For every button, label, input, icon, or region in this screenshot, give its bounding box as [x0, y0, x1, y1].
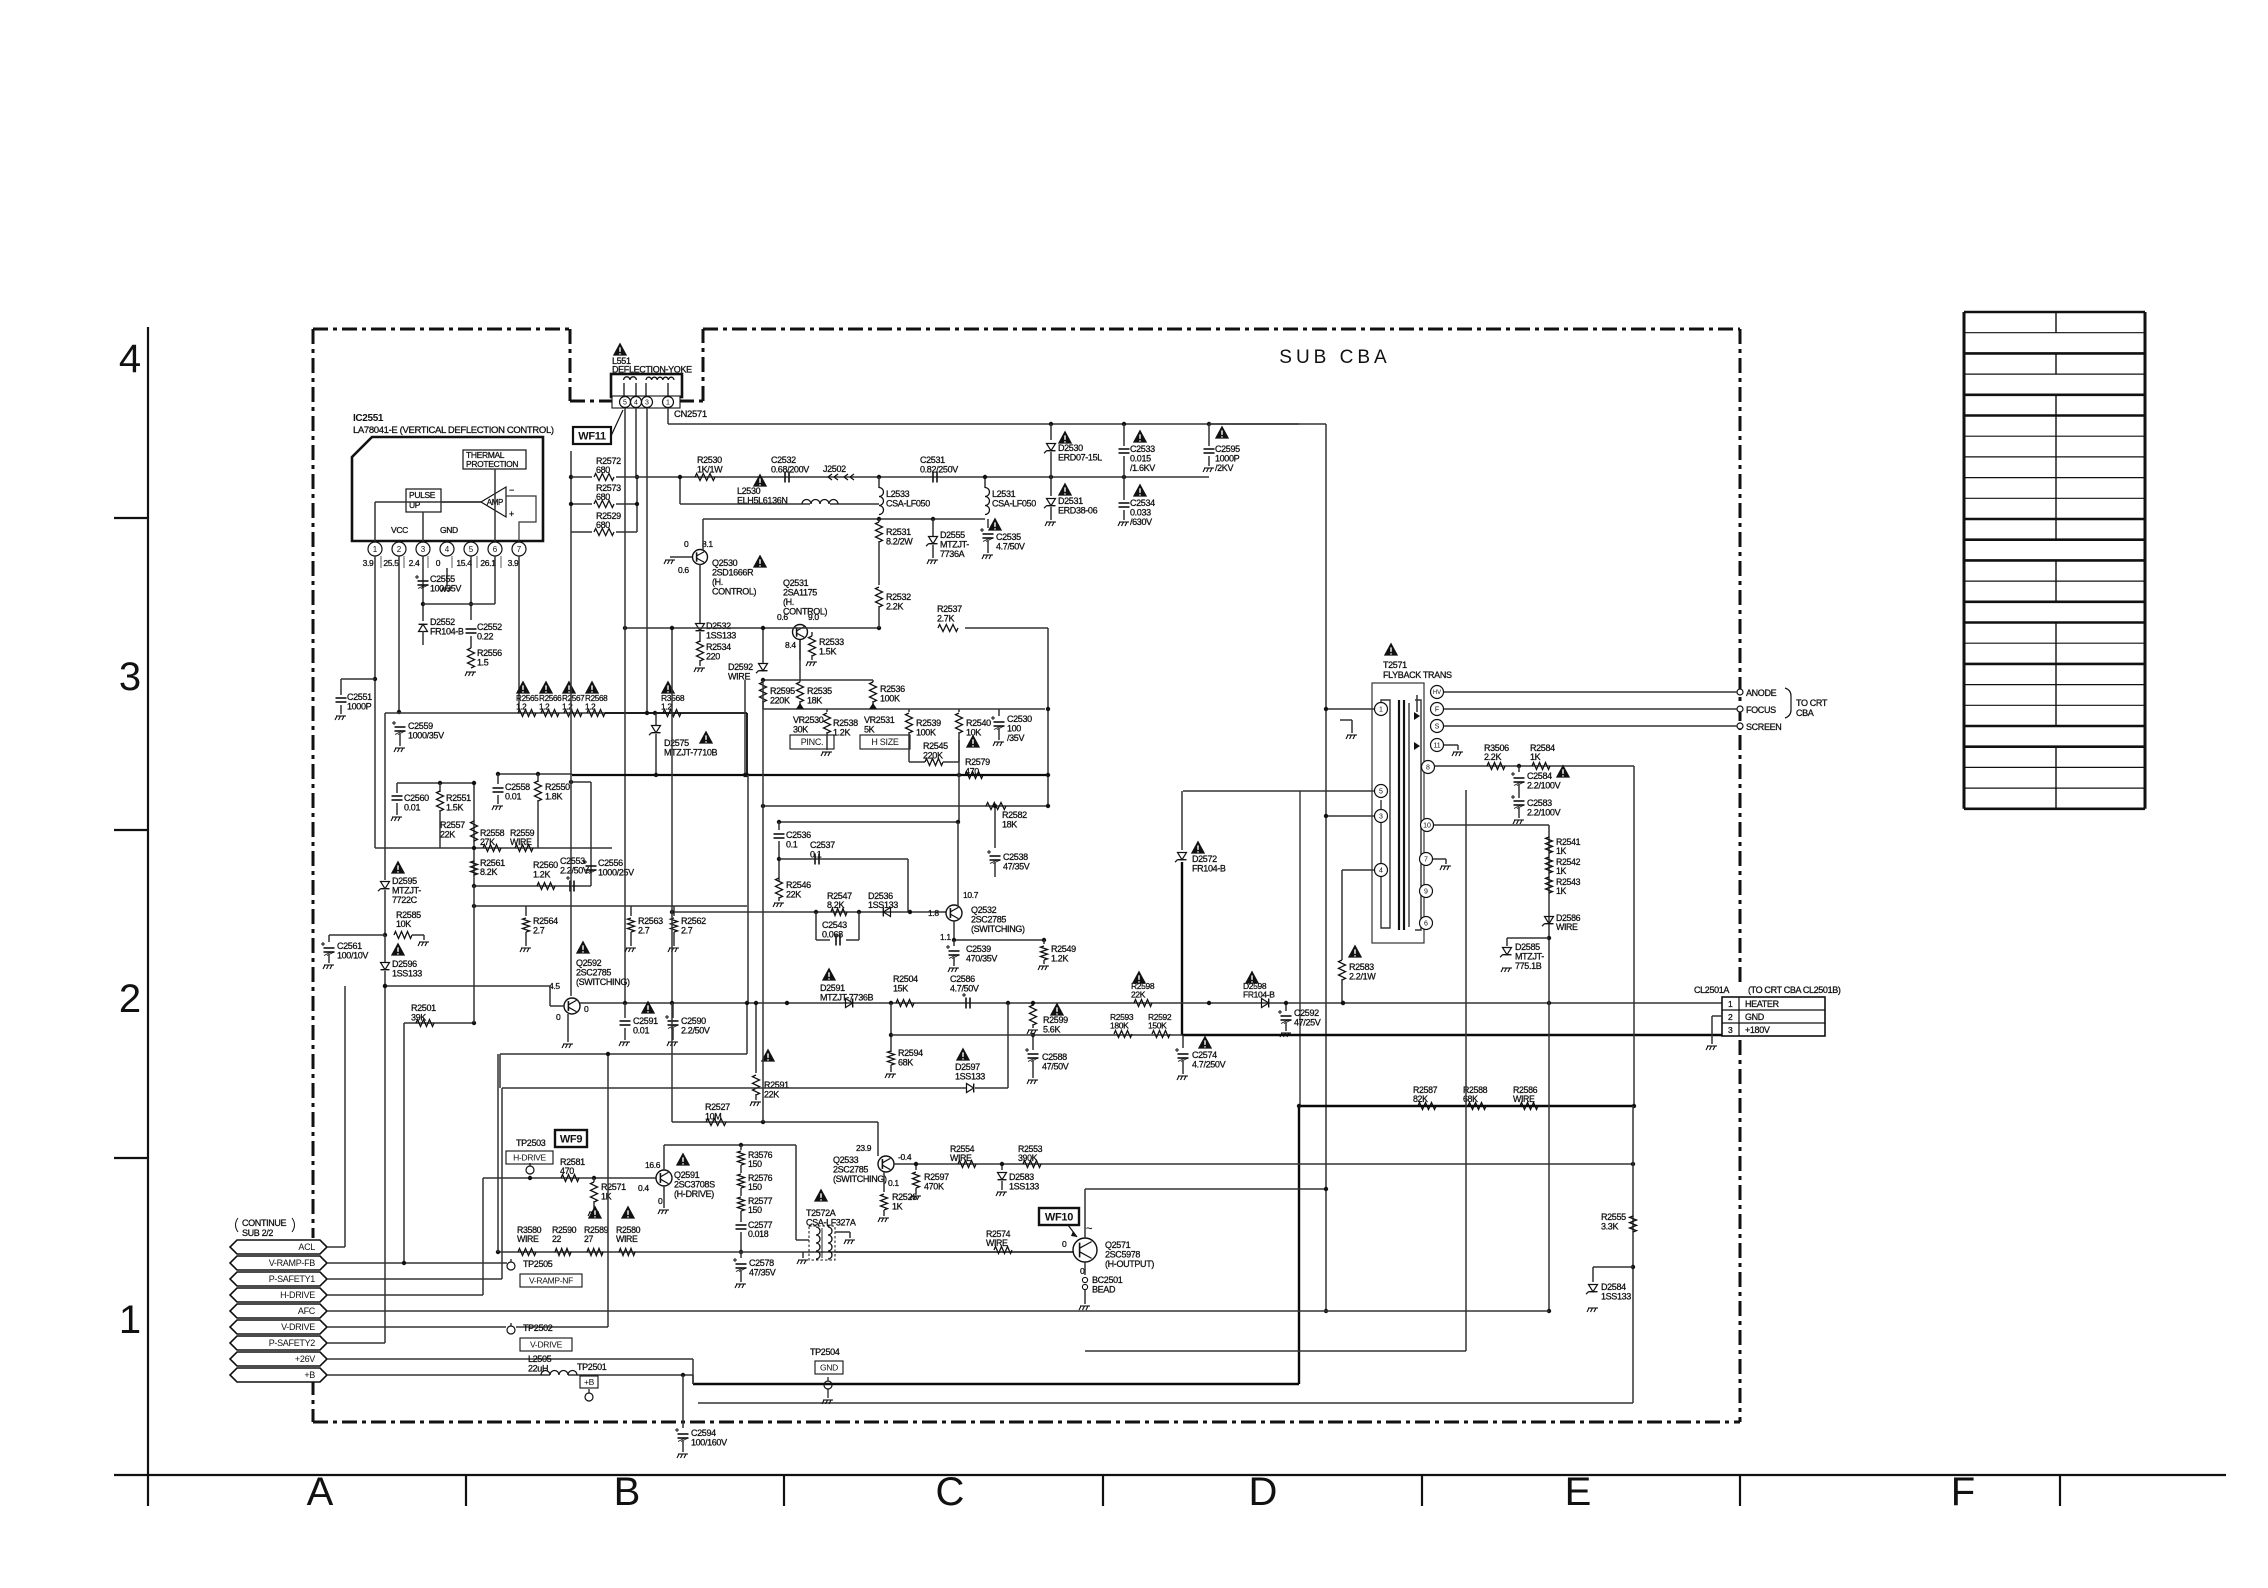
wire pin6 down — [494, 556, 496, 604]
WF10 arrow — [1068, 1225, 1077, 1237]
svg-text:CBA: CBA — [1796, 708, 1814, 718]
svg-text:100: 100 — [1007, 724, 1021, 734]
resistor R2576 — [740, 1165, 742, 1173]
yoke coil right — [646, 377, 674, 380]
border bottom segment — [313, 1421, 1740, 1424]
junction R2501 — [472, 1021, 476, 1025]
svg-text:H-DRIVE: H-DRIVE — [513, 1153, 546, 1163]
svg-text:15K: 15K — [893, 984, 908, 994]
junction x474 y783 — [472, 781, 476, 785]
resistor R2554 — [958, 1161, 976, 1168]
page frame bottom line — [114, 1474, 2226, 1476]
svg-text:22K: 22K — [764, 1090, 779, 1100]
svg-text:Q2533: Q2533 — [833, 1155, 859, 1165]
wire x1300 vertical — [1299, 791, 1301, 1106]
svg-text:TP2503: TP2503 — [516, 1138, 546, 1148]
inductor L2530 — [802, 500, 838, 505]
wire y1403 — [698, 1402, 1633, 1404]
svg-text:1000P: 1000P — [1215, 454, 1240, 464]
resistor R2586 — [1520, 1103, 1538, 1110]
resistor R2561 — [471, 861, 478, 875]
svg-text:4: 4 — [445, 545, 450, 554]
junction R2585 — [383, 933, 387, 937]
svg-text:CL2501A: CL2501A — [1694, 985, 1729, 995]
wire drive row y1252 — [498, 1251, 1074, 1253]
border right lower segment — [1739, 1040, 1742, 1422]
svg-text:1K: 1K — [1556, 886, 1567, 896]
H SIZE box — [860, 735, 910, 749]
wire x878 down — [877, 1122, 879, 1156]
svg-text:TP2501: TP2501 — [577, 1362, 607, 1372]
svg-text:(SWITCHING): (SWITCHING) — [971, 924, 1025, 934]
wire C2559 down — [399, 734, 401, 746]
svg-text:FR104-B: FR104-B — [1243, 990, 1275, 1000]
svg-text:25.5: 25.5 — [383, 558, 399, 568]
capacitor C2586p — [965, 998, 967, 1009]
svg-text:P-SAFETY2: P-SAFETY2 — [269, 1338, 316, 1348]
ground C2594 — [677, 1454, 688, 1458]
frame tick left y518 — [114, 517, 148, 519]
wire pin1 down2 — [374, 679, 376, 848]
resistor R2545 — [909, 761, 925, 763]
resistor R2599 — [1032, 1003, 1034, 1006]
svg-text:470K: 470K — [924, 1182, 944, 1192]
diode D2591 — [846, 999, 853, 1008]
svg-text:LA78041-E (VERTICAL DEFLECTION: LA78041-E (VERTICAL DEFLECTION CONTROL) — [353, 425, 554, 436]
junction y912 816 — [814, 910, 818, 914]
junction x745 y775 — [743, 773, 747, 777]
svg-text:Q2530: Q2530 — [712, 558, 738, 568]
svg-text:27: 27 — [584, 1234, 594, 1244]
svg-text:C2543: C2543 — [822, 920, 847, 930]
border left upper segment — [312, 329, 315, 1238]
resistor R2562 — [673, 906, 675, 916]
junction y775 — [957, 773, 961, 777]
resistor R2588 — [1468, 1103, 1486, 1110]
svg-text:R2531: R2531 — [886, 527, 911, 537]
ground D2584 — [1587, 1308, 1598, 1312]
ground C2595 — [1203, 468, 1214, 472]
junction y424 1124 — [1122, 422, 1126, 426]
wire y1310 loop — [1548, 1003, 1550, 1311]
ground T2572A right — [844, 1240, 855, 1244]
T2571 pin 3 — [1375, 810, 1388, 823]
junction pin2 — [397, 710, 401, 714]
ground D2555 — [927, 560, 938, 564]
svg-text:D2555: D2555 — [940, 530, 965, 540]
VR2530 arrow — [796, 703, 804, 709]
wire pin2 down — [398, 556, 400, 712]
warn C2535 — [988, 518, 1002, 531]
svg-text:2.7: 2.7 — [681, 926, 693, 936]
resistor R2540 — [958, 709, 960, 712]
svg-text:100K: 100K — [880, 694, 900, 704]
svg-text:(H-OUTPUT): (H-OUTPUT) — [1105, 1259, 1154, 1269]
svg-text:0.033: 0.033 — [1130, 508, 1151, 518]
junction pin3 — [1324, 814, 1328, 818]
ground C2535 — [982, 555, 993, 559]
junction y1003 672 — [670, 1001, 674, 1005]
ground D2531 — [1045, 522, 1056, 526]
wire pin5 down — [470, 556, 472, 620]
capacitor C2536 — [778, 822, 780, 830]
svg-text:1SS133: 1SS133 — [1601, 1292, 1631, 1302]
ground C2560 — [391, 817, 402, 821]
svg-text:TO CRT: TO CRT — [1796, 698, 1828, 708]
junction y1003 1008 — [1006, 1001, 1010, 1005]
svg-text:Q2531: Q2531 — [783, 578, 809, 588]
svg-text:(H.: (H. — [712, 577, 723, 587]
svg-text:7722C: 7722C — [392, 895, 418, 905]
svg-text:R2555: R2555 — [1601, 1212, 1626, 1222]
svg-text:(SWITCHING): (SWITCHING) — [576, 977, 630, 987]
resistor R2555 — [1630, 1216, 1637, 1232]
border yoke notch left vertical — [569, 329, 572, 401]
wire x747 thick — [746, 713, 748, 775]
wire y806 — [763, 805, 1048, 807]
capacitor C2578 — [740, 1252, 742, 1258]
pin separators — [380, 556, 382, 568]
resistor R2564 — [525, 906, 527, 916]
svg-text:(TO CRT CBA CL2501B): (TO CRT CBA CL2501B) — [1748, 985, 1841, 995]
svg-text:680: 680 — [596, 520, 610, 530]
junction y848 — [472, 846, 476, 850]
junction y822 779 — [777, 820, 781, 824]
svg-text:4.7/50V: 4.7/50V — [996, 542, 1025, 552]
wire L2531 top — [984, 477, 986, 488]
resistor R2591 — [755, 1003, 757, 1073]
svg-text:1K: 1K — [1530, 752, 1541, 762]
wire Q2532 emitter — [953, 921, 955, 940]
svg-text:1.5K: 1.5K — [819, 647, 836, 657]
svg-text:WIRE: WIRE — [616, 1234, 638, 1244]
svg-text:2: 2 — [119, 977, 141, 1021]
resistor R2590 — [555, 1249, 571, 1256]
svg-text:Q2591: Q2591 — [674, 1170, 700, 1180]
svg-text:-0.4: -0.4 — [898, 1152, 912, 1162]
resistor R2531 — [878, 519, 880, 522]
svg-text:C2551: C2551 — [347, 692, 372, 702]
junction y424 1209 — [1207, 422, 1211, 426]
junction y986 — [383, 984, 387, 988]
wire Q2591 emitter — [663, 1186, 665, 1208]
warn D2596 — [391, 943, 405, 956]
svg-text:2.2/50V: 2.2/50V — [560, 866, 589, 876]
wire x959 mid — [958, 740, 960, 822]
svg-text:150: 150 — [748, 1205, 762, 1215]
svg-text:2SC5978: 2SC5978 — [1105, 1250, 1140, 1260]
node H-DRIVE hexagon — [230, 1288, 327, 1302]
svg-text:0.1: 0.1 — [810, 850, 822, 860]
wire pin4 left — [1342, 869, 1374, 871]
svg-text:2: 2 — [397, 545, 402, 554]
svg-text:C2539: C2539 — [966, 944, 991, 954]
ground R2564 — [520, 948, 531, 952]
svg-text:WF9: WF9 — [560, 1133, 583, 1145]
warn R2591 — [761, 1049, 775, 1062]
VR2531 arrow — [869, 703, 877, 709]
svg-text:1K: 1K — [1556, 866, 1567, 876]
wire R2594 col — [890, 1003, 892, 1052]
ground BC2501 — [1079, 1306, 1090, 1310]
junction R2572 l — [569, 475, 573, 479]
junction R2572 r — [635, 475, 639, 479]
warn R2566 — [539, 681, 553, 694]
svg-text:FOCUS: FOCUS — [1746, 705, 1776, 715]
wire pin7 down — [518, 556, 520, 713]
warn R2568 — [585, 681, 599, 694]
ground R2549 — [1038, 966, 1049, 970]
wire D2585 branch — [1507, 937, 1549, 939]
wire bead down — [1084, 1290, 1086, 1304]
ground C2588 — [1027, 1080, 1038, 1084]
svg-text:C2536: C2536 — [786, 830, 811, 840]
wire Q2531 emitter down — [799, 640, 801, 660]
node +26V hexagon — [230, 1352, 327, 1366]
svg-text:30K: 30K — [793, 725, 808, 735]
wire P-SAFETY2 — [327, 1342, 385, 1344]
transistor Q2571 — [1073, 1238, 1097, 1262]
ground R2534 — [694, 668, 705, 672]
svg-text:2SC2785: 2SC2785 — [971, 915, 1006, 925]
junction y1122 763 — [761, 1120, 765, 1124]
T2571 outline — [1372, 683, 1424, 943]
wire y886 — [474, 885, 591, 887]
node V-RAMP-FB hexagon — [230, 1256, 327, 1270]
svg-text:C2532: C2532 — [771, 455, 796, 465]
junction R2597 — [914, 1162, 918, 1166]
svg-text:0.4: 0.4 — [638, 1183, 649, 1193]
svg-text:D2595: D2595 — [392, 876, 417, 886]
wire Q2571 emitter — [1084, 1262, 1086, 1275]
svg-text:2.2K: 2.2K — [1484, 752, 1501, 762]
junction R2591 — [754, 1001, 758, 1005]
zener D2575 — [655, 713, 657, 726]
resistor R2533 — [811, 632, 813, 636]
svg-text:8.2/2W: 8.2/2W — [886, 537, 913, 547]
wire R2583 col — [1341, 870, 1343, 960]
wire C2561 branch — [329, 934, 385, 936]
resistor R2538 — [826, 709, 828, 712]
svg-text:C2558: C2558 — [505, 782, 530, 792]
svg-text:R2545: R2545 — [923, 741, 948, 751]
warn L551 — [613, 343, 627, 356]
svg-text:R2579: R2579 — [965, 757, 990, 767]
diode D2597h — [967, 1084, 974, 1093]
wire P-SAFETY1 — [327, 1278, 502, 1280]
ground R2556 — [465, 672, 476, 676]
svg-text:0: 0 — [1062, 1239, 1067, 1249]
junction pin1 x1326 — [1324, 707, 1328, 711]
svg-text:C2592: C2592 — [1294, 1008, 1319, 1018]
ground C2530 — [993, 742, 1004, 746]
wire D2552 to C2552 — [422, 631, 424, 645]
capacitor C2577 — [740, 1211, 742, 1222]
wire Q2530 emitter — [699, 564, 701, 623]
resistor R2592 — [1152, 1031, 1170, 1038]
svg-text:C2574: C2574 — [1192, 1050, 1217, 1060]
warn C2591 — [641, 1001, 655, 1014]
wire x1634 — [1633, 766, 1635, 1106]
wire y775 heavy — [572, 774, 1048, 776]
junction x1299 y1106 — [1297, 1104, 1301, 1108]
frame tick bottom x2060 — [2059, 1475, 2061, 1506]
svg-text:0: 0 — [658, 1196, 663, 1206]
capacitor C2558 — [497, 774, 499, 784]
svg-text:(H.: (H. — [783, 597, 794, 607]
frame tick bottom x1103 — [1102, 1475, 1104, 1506]
testpoint TP2504 — [824, 1381, 832, 1389]
svg-text:V-RAMP-NF: V-RAMP-NF — [529, 1276, 573, 1286]
warn D2597 — [956, 1048, 970, 1061]
IC2551 pin 1 — [368, 542, 382, 556]
border right upper segment — [1739, 329, 1742, 985]
resistor R2565 — [518, 710, 536, 717]
wire pin3 down — [422, 556, 424, 621]
T2571 pin F — [1431, 703, 1444, 716]
svg-text:R2549: R2549 — [1051, 944, 1076, 954]
wire R2527 col — [671, 1003, 673, 1122]
wire resistor row y713 — [385, 712, 667, 714]
svg-text:T2572A: T2572A — [806, 1208, 836, 1218]
ground pin7 — [1440, 866, 1451, 870]
svg-text:H-DRIVE: H-DRIVE — [280, 1290, 315, 1300]
svg-text:4.7/250V: 4.7/250V — [1192, 1060, 1226, 1070]
svg-text:R2564: R2564 — [533, 916, 558, 926]
svg-text:220K: 220K — [770, 696, 790, 706]
junction L2530 — [678, 475, 682, 479]
ground Q2592 — [562, 1044, 573, 1048]
wire pin11 gnd — [1444, 744, 1458, 746]
svg-text:V-DRIVE: V-DRIVE — [530, 1340, 563, 1350]
svg-text:CONTINUE: CONTINUE — [242, 1218, 287, 1228]
wire x763 long — [762, 806, 764, 1122]
svg-text:R2550: R2550 — [545, 782, 570, 792]
svg-text:SUB 2/2: SUB 2/2 — [242, 1228, 273, 1238]
diode D2586 — [1545, 917, 1554, 924]
CN2571 pin 5 — [620, 397, 631, 408]
resistor R2587 — [1418, 1103, 1436, 1110]
svg-text:D2584: D2584 — [1601, 1282, 1626, 1292]
svg-text:0.01: 0.01 — [404, 803, 420, 813]
wire row to D2575 — [605, 712, 747, 714]
svg-text:1000P: 1000P — [347, 702, 372, 712]
transformer T2572A — [809, 1226, 835, 1260]
wire FOCUS — [1444, 708, 1737, 710]
svg-text:10K: 10K — [396, 919, 411, 929]
svg-text:10.7: 10.7 — [963, 890, 979, 900]
svg-text:MTZJT-: MTZJT- — [1515, 952, 1544, 962]
junction C2538 top — [993, 804, 997, 808]
svg-text:0: 0 — [584, 1004, 589, 1014]
junction y713 x647 — [645, 711, 649, 715]
T2571 inner gnd — [1351, 720, 1353, 733]
warn R2599 — [1050, 1003, 1064, 1016]
wire y604 — [423, 603, 495, 605]
capacitor C2556 — [586, 865, 597, 867]
wire amp out left — [375, 501, 481, 503]
capacitor C2592 — [1285, 1003, 1287, 1011]
capacitor C2552 — [466, 628, 477, 630]
resistor R2534 — [699, 632, 701, 642]
wire pulseup down — [422, 512, 424, 541]
wire +B — [327, 1374, 550, 1376]
junction y1003 625 — [623, 1001, 627, 1005]
svg-text:WF11: WF11 — [578, 430, 606, 442]
svg-text:D2575: D2575 — [664, 738, 689, 748]
wire y940 — [954, 939, 1044, 941]
pin4 ground wire — [446, 568, 448, 586]
resistor R2598 — [1134, 1000, 1152, 1007]
ground R2594 — [885, 1074, 896, 1078]
H-DRIVE box — [506, 1151, 553, 1164]
svg-text:FLYBACK TRANS: FLYBACK TRANS — [1383, 670, 1452, 680]
svg-text:11: 11 — [1433, 743, 1440, 750]
svg-text:E: E — [1565, 1470, 1592, 1514]
svg-text:220: 220 — [706, 652, 720, 662]
THERMAL PROTECTION box — [463, 450, 526, 469]
svg-text:10: 10 — [1423, 823, 1431, 830]
wire drive row right — [835, 1251, 1074, 1253]
warn Q2530 — [753, 555, 767, 568]
wire C2556 col — [590, 782, 592, 886]
svg-text:3.3K: 3.3K — [1601, 1222, 1618, 1232]
junction y886 x474 — [472, 884, 476, 888]
warn D2530 — [1058, 431, 1072, 444]
svg-text:R2532: R2532 — [886, 592, 911, 602]
wire y906 — [474, 905, 747, 907]
svg-text:1.2K: 1.2K — [1051, 954, 1068, 964]
svg-text:C2538: C2538 — [1003, 852, 1028, 862]
resistor R3580 — [518, 1249, 536, 1256]
transistor Q2531 — [793, 625, 808, 640]
IC2551 pin 6 — [488, 542, 502, 556]
resistor R2539 — [908, 709, 910, 712]
svg-text:1K: 1K — [1556, 846, 1567, 856]
warn Q2592 — [576, 941, 590, 954]
wire D2572 heavy — [1181, 862, 1183, 1035]
svg-text:+180V: +180V — [1745, 1025, 1770, 1035]
svg-text:CSA-LF050: CSA-LF050 — [886, 499, 930, 509]
resistor R2547 — [831, 909, 847, 916]
frame tick bottom x1422 — [1421, 1475, 1423, 1506]
svg-text:1.8K: 1.8K — [545, 792, 562, 802]
node P-SAFETY1 hexagon — [230, 1272, 327, 1286]
svg-text:C2561: C2561 — [337, 941, 362, 951]
svg-text:3: 3 — [645, 400, 649, 407]
transistor Q2533 — [878, 1156, 894, 1172]
wire CN pin4 down — [635, 408, 637, 477]
ground T2571 inner — [1346, 735, 1357, 739]
border top-right segment — [703, 328, 1740, 331]
svg-text:9: 9 — [1424, 889, 1428, 896]
svg-text:L2531: L2531 — [992, 489, 1016, 499]
svg-text:150: 150 — [748, 1182, 762, 1192]
wire R2501 row — [404, 1022, 474, 1024]
node AFC hexagon — [230, 1304, 327, 1318]
svg-text:A: A — [307, 1470, 334, 1514]
svg-text:R2536: R2536 — [880, 684, 905, 694]
svg-text:R2582: R2582 — [1002, 810, 1027, 820]
wire x474 main — [473, 783, 475, 885]
wire H-DRIVE y1178 — [483, 1177, 656, 1179]
junction x741 — [739, 1143, 743, 1147]
svg-text:1: 1 — [119, 1298, 141, 1342]
resistor R2504 — [896, 1000, 914, 1007]
CN2571 pin 3 — [642, 397, 653, 408]
border yoke notch right horizontal — [679, 400, 703, 403]
svg-text:R2534: R2534 — [706, 642, 731, 652]
